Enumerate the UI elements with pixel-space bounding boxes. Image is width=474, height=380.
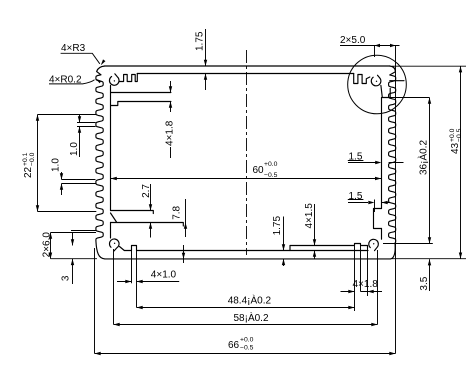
leader note 4xR3 corner radius xyxy=(61,43,106,66)
svg-text:60: 60 xyxy=(253,165,265,176)
svg-text:4×R0.2: 4×R0.2 xyxy=(49,75,82,86)
left wall shelf B xyxy=(111,213,184,226)
dimension 43 +0.0/-0.5 overall height xyxy=(392,66,466,259)
dimension 3 bottom wall xyxy=(60,233,74,285)
svg-text:4×R3: 4×R3 xyxy=(61,43,86,54)
right wall inner edge upper segment xyxy=(381,98,383,209)
svg-text:58¡À0.2: 58¡À0.2 xyxy=(234,311,269,324)
left wall inner edge lower segment xyxy=(110,223,112,239)
svg-text:1.75: 1.75 xyxy=(272,215,283,235)
dimension 2x6.0 corner boss height xyxy=(41,231,97,259)
dimension 36 +-0.2 right inner height xyxy=(383,98,433,244)
profile: bottom outer wall line xyxy=(105,258,391,260)
dimension 4x1.5 platform height xyxy=(304,203,321,259)
bottom inner wall with tooth at 4x1.0 slot xyxy=(120,246,369,251)
profile: top inner wall line xyxy=(137,73,353,75)
dimension 4x1.8 rail slot height xyxy=(165,81,176,158)
screw boss top-left (hook circle with center mark) xyxy=(109,74,119,86)
svg-text:1.5: 1.5 xyxy=(349,152,363,163)
dimension 66 +0.0/-0.5 overall width xyxy=(95,87,396,355)
screw boss bottom-left (hook circle with center mark) xyxy=(109,239,119,251)
detail circle highlighting top-right corner xyxy=(348,55,407,114)
dimension 60 +0.0/-0.5 inner width xyxy=(110,161,381,180)
dimension 2.7 shelf step xyxy=(141,184,152,238)
profile: outer contour right wall with fins and corner radii xyxy=(389,66,396,259)
top-left castellation teeth xyxy=(119,74,137,82)
svg-text:36¡À0.2: 36¡À0.2 xyxy=(417,140,430,175)
svg-text:−0.0: −0.0 xyxy=(29,152,36,166)
svg-text:2×5.0: 2×5.0 xyxy=(340,35,366,46)
svg-text:4×1.8: 4×1.8 xyxy=(353,279,379,290)
svg-text:66: 66 xyxy=(228,340,240,351)
dimension 1.75 top wall thickness xyxy=(195,29,208,90)
dimension 1.5 lower right xyxy=(348,191,390,212)
svg-text:4×1.5: 4×1.5 xyxy=(304,203,315,229)
dimension 3.5 bottom right xyxy=(419,259,431,291)
right wall inner edge lower segment xyxy=(381,229,383,240)
svg-text:−0.5: −0.5 xyxy=(456,128,463,142)
svg-text:2.7: 2.7 xyxy=(141,184,152,198)
left wall shelf A xyxy=(111,211,154,214)
svg-text:43: 43 xyxy=(450,142,461,154)
svg-text:4×1.8: 4×1.8 xyxy=(165,120,176,146)
left wall inner edge upper segment xyxy=(110,86,112,211)
dimension 1.0 fin pitch lower xyxy=(50,158,95,195)
dimension 48.4 +-0.2 xyxy=(137,294,355,310)
top-right 2x5.0 screw port slot xyxy=(381,81,404,98)
dimension 2x5.0 screw port xyxy=(340,35,400,87)
svg-text:+0.0: +0.0 xyxy=(240,337,254,344)
svg-text:+0.0: +0.0 xyxy=(264,161,278,168)
dimension 7.8 shelf to bottom xyxy=(172,199,188,263)
svg-text:7.8: 7.8 xyxy=(172,205,183,219)
dimension 1.75 bottom wall thickness xyxy=(272,215,285,266)
top-right castellation teeth xyxy=(354,74,370,84)
svg-text:+0.1: +0.1 xyxy=(22,152,29,166)
svg-text:48.4¡À0.2: 48.4¡À0.2 xyxy=(228,294,272,307)
svg-text:1.0: 1.0 xyxy=(50,158,61,172)
upper PCB rail left (4x1.8 slot) xyxy=(111,93,171,106)
svg-text:2×6.0: 2×6.0 xyxy=(41,232,52,258)
dimension 58 +-0.2 xyxy=(114,249,378,326)
vertical centerline (dash-dot) xyxy=(246,50,248,255)
bottom raised platform with tooth (4x1.5 / 4x1.8) xyxy=(290,244,368,251)
leader note 4xR0.2 fin tip radius xyxy=(49,75,101,86)
svg-text:3.5: 3.5 xyxy=(419,276,430,290)
profile: top outer wall line xyxy=(105,65,390,67)
dimension 1.5 fin depth upper right xyxy=(348,152,404,165)
svg-text:−0.5: −0.5 xyxy=(264,172,278,179)
screw boss top-right (hook circle with center mark) xyxy=(371,75,381,86)
profile: outer contour left wall with fins, top-left corner R3 xyxy=(96,66,105,259)
svg-text:−0.5: −0.5 xyxy=(240,344,254,351)
svg-text:1.5: 1.5 xyxy=(349,191,363,202)
dimension 4x1.0 bottom slot width xyxy=(117,251,179,308)
right wall inner notch xyxy=(374,209,382,229)
svg-text:3: 3 xyxy=(60,275,71,281)
svg-text:22: 22 xyxy=(23,166,34,178)
dimension 1.0 fin pitch upper xyxy=(69,115,96,157)
svg-text:1.75: 1.75 xyxy=(195,31,206,51)
svg-text:4×1.0: 4×1.0 xyxy=(151,269,177,280)
dimension 4x1.8 bottom slot width right xyxy=(341,244,383,311)
svg-text:+0.0: +0.0 xyxy=(449,128,456,142)
dimension 22 +0.1/-0.0 left xyxy=(22,115,97,212)
svg-text:1.0: 1.0 xyxy=(69,142,80,156)
screw boss bottom-right (hook circle with center mark) xyxy=(369,239,379,250)
